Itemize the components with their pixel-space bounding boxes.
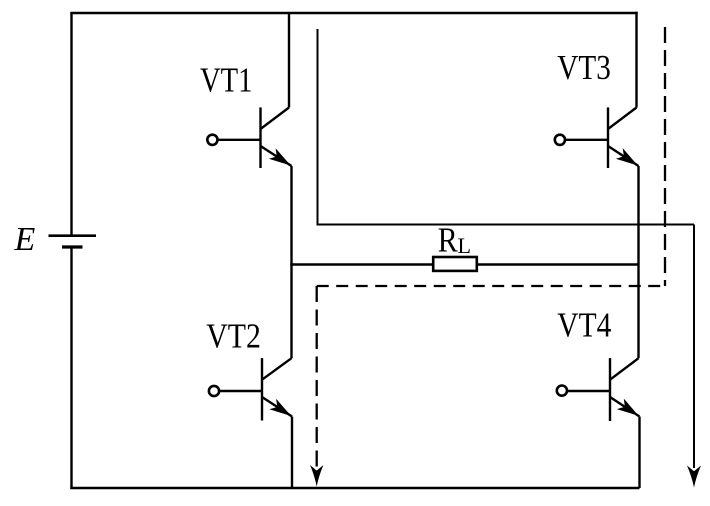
svg-text:E: E [14,221,36,258]
battery E long plate [49,234,97,237]
wire: VT1 emitter to load node A [290,166,292,266]
arrowhead: solid output current arrow [687,466,701,488]
wire: top supply rail [70,12,637,14]
arrowhead: dashed current arrow [310,465,323,487]
wire: output tap horizontal run [317,224,695,226]
wire: load wire left segment (node A to resistor) [292,263,434,265]
wire: VT2 collector from load node A [290,263,292,358]
resistor RL body [433,257,477,271]
svg-text:L: L [458,233,472,258]
dashed current path: horizontal across [317,285,665,287]
wire: VT3 emitter through node B to VT4 collector [637,166,639,358]
transistor VT1 [207,107,291,168]
transistor VT3 [555,107,639,168]
wire: left rail lower (battery - to bottom rail) [70,247,72,489]
wire: VT4 emitter to bottom rail [638,417,640,489]
svg-text:VT3: VT3 [557,48,611,87]
svg-text:R: R [438,220,459,259]
wire: VT2 emitter to bottom rail [291,417,293,489]
wire: output tap vertical from node above VT1 branch [317,29,319,225]
wire: VT1 collector to top rail [288,13,290,108]
wire: output drop on right with arrow [693,225,695,469]
wire: load wire right segment (resistor to node B) [478,263,639,265]
dashed current path: left vertical down [316,286,318,467]
wire: VT3 collector to top rail (right corner) [635,12,637,108]
svg-text:VT1: VT1 [200,60,253,99]
battery E short plate [62,245,83,248]
dashed current path: right vertical [664,27,666,286]
transistor VT2 [209,358,292,420]
svg-text:VT2: VT2 [206,316,261,355]
wire: left rail upper (battery + to top rail) [70,13,72,236]
wire: bottom return rail [70,487,639,489]
svg-text:VT4: VT4 [557,305,611,344]
transistor VT4 [557,358,640,421]
